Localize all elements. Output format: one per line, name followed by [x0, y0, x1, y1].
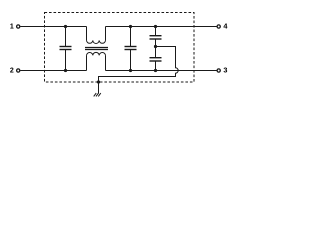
node junction top rail at C2: [129, 25, 132, 28]
node case connection dot on dashed outline: [97, 80, 100, 83]
wire top rail left (terminal 1 to choke): [20, 26, 86, 28]
node junction top rail at C3: [154, 25, 157, 28]
capacitor C1 X-cap: [60, 27, 72, 71]
ground earth symbol: [94, 93, 101, 96]
node junction top rail at C1: [64, 25, 67, 28]
svg-text:2: 2: [10, 68, 14, 75]
capacitor C2 X-cap: [125, 27, 137, 71]
node junction bottom rail at C1: [64, 69, 67, 72]
enclosure dashed case outline: [45, 13, 195, 83]
wire ground run from Y-cap midpoint with crossover hop: [99, 47, 179, 94]
svg-text:1: 1: [10, 24, 14, 31]
terminal 3: [217, 66, 227, 75]
common-mode choke L1 core: [85, 48, 108, 50]
wire top rail right (choke to terminal 4): [106, 26, 217, 28]
node junction bottom rail at C2: [129, 69, 132, 72]
common-mode choke L1 bottom winding: [87, 52, 106, 70]
node junction bottom rail at C4: [154, 69, 157, 72]
wire bottom rail left (terminal 2 to choke): [20, 70, 86, 72]
wire bottom rail right (choke to terminal 3): [106, 70, 217, 72]
svg-text:4: 4: [223, 22, 228, 31]
svg-text:3: 3: [223, 66, 227, 75]
common-mode choke L1 top winding: [87, 27, 106, 44]
terminal 1: [10, 24, 20, 31]
capacitor C4 Y-cap lower: [150, 47, 162, 71]
capacitor C3 Y-cap upper: [150, 27, 162, 47]
terminal 2: [10, 68, 20, 75]
terminal 4: [217, 22, 228, 31]
node Y-cap midpoint junction: [154, 45, 157, 48]
